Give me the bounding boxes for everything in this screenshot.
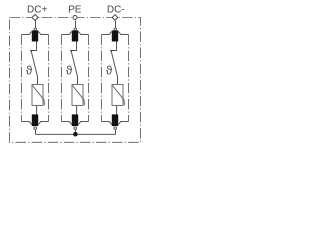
module 1 bottom plug blade (black)	[32, 114, 38, 126]
arrowhead of disconnect switch 1	[30, 50, 32, 53]
svg-text:ϑ: ϑ	[26, 64, 33, 78]
module 2 dash-dot box right side	[88, 35, 90, 122]
module 3 top plug contact circle	[114, 28, 117, 30]
wire + pivot of thermal disconnect switch, module 1	[31, 42, 37, 51]
base socket jaws, top of module 1	[22, 31, 49, 34]
wire blade to varistor 3	[117, 76, 119, 84]
switch blade 2	[71, 52, 77, 77]
base socket jaws, bottom of module 3	[102, 122, 129, 125]
base socket jaws, top of module 2	[62, 31, 89, 34]
svg-text:DC-: DC-	[107, 5, 125, 16]
wire blade to varistor 1	[37, 76, 39, 84]
module 1 top plug contact circle	[34, 28, 37, 30]
varistor RV1 body	[32, 85, 43, 106]
wire module 2 to earth bus	[75, 130, 77, 135]
junction dot on bus at PE branch	[73, 132, 78, 137]
wire: DC+ terminal to module 1 contact	[35, 21, 37, 28]
wire + pivot of thermal disconnect switch, module 2	[71, 42, 77, 51]
varistor RV2 body	[72, 85, 83, 106]
terminal X1 diamond DC+	[32, 14, 38, 20]
module 1 top plug blade (black)	[32, 30, 38, 41]
module 2 dash-dot box left side	[61, 35, 63, 122]
varistor RV1 diagonal stroke	[32, 85, 44, 105]
module 2 top plug blade (black)	[72, 30, 78, 41]
wire + pivot of thermal disconnect switch, module 3	[111, 42, 117, 51]
varistor RV2 diagonal stroke	[72, 85, 84, 105]
module 1 dash-dot box left side	[21, 35, 23, 122]
svg-text:PE: PE	[68, 5, 82, 16]
base socket jaws, bottom of module 2	[62, 122, 89, 125]
arrowhead of disconnect switch 3	[110, 50, 112, 53]
varistor RV3 body	[112, 85, 123, 106]
module 3 bottom plug contact circle	[114, 127, 117, 130]
switch blade 1	[31, 52, 37, 77]
svg-text:ϑ: ϑ	[106, 64, 113, 78]
base socket jaws, top of module 3	[102, 31, 129, 34]
earth bus wire	[36, 133, 116, 135]
module 2 top plug contact circle	[74, 28, 77, 30]
wire: DC- terminal to module 3 contact	[115, 21, 117, 28]
enclosure outer dash-dot box	[10, 18, 141, 143]
module 2 bottom plug blade (black)	[72, 114, 78, 126]
varistor RV3 diagonal stroke	[112, 85, 124, 105]
wire varistor 3 to bottom contact	[116, 106, 118, 115]
module 3 dash-dot box right side	[128, 35, 130, 122]
terminal X2 circle PE	[73, 16, 77, 20]
module 1 bottom plug contact circle	[34, 127, 37, 130]
wire module 3 to earth bus	[115, 130, 117, 135]
wire varistor 2 to bottom contact	[76, 106, 78, 115]
svg-text:DC+: DC+	[27, 5, 47, 16]
module 3 dash-dot box left side	[101, 35, 103, 122]
wire module 1 to earth bus	[35, 130, 37, 135]
arrowhead of disconnect switch 2	[70, 50, 72, 53]
terminal X3 diamond DC-	[112, 15, 118, 21]
module 3 bottom plug blade (black)	[112, 114, 118, 126]
svg-text:ϑ: ϑ	[66, 64, 73, 78]
wire varistor 1 to bottom contact	[36, 106, 38, 115]
base socket jaws, bottom of module 1	[22, 122, 49, 125]
wire blade to varistor 2	[77, 76, 79, 84]
module 3 top plug blade (black)	[112, 30, 118, 41]
wire: PE terminal to module 2 contact	[75, 21, 77, 28]
module 2 bottom plug contact circle	[74, 127, 77, 130]
switch blade 3	[111, 52, 117, 77]
module 1 dash-dot box right side	[48, 35, 50, 122]
